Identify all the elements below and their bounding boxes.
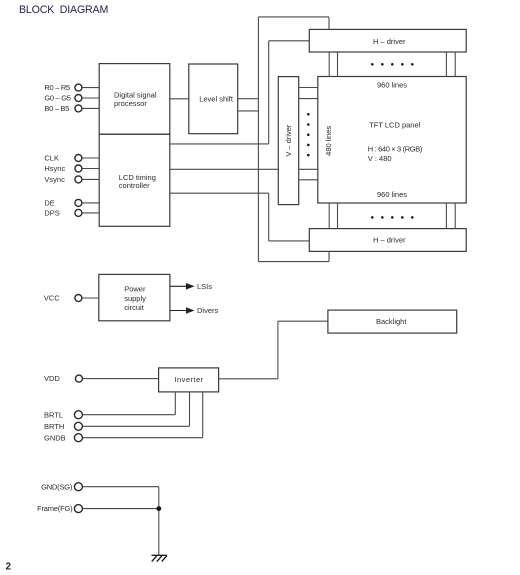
terminal Frame(FG) bbox=[74, 505, 82, 513]
svg-text:controller: controller bbox=[119, 181, 150, 190]
wire timing to bottom H-driver lower horizontal bbox=[269, 240, 310, 242]
wire into backlight bbox=[278, 320, 328, 322]
wire timing to bottom H-driver vertical bbox=[268, 193, 270, 241]
terminal BRTL bbox=[74, 411, 82, 419]
svg-text:Hsync: Hsync bbox=[44, 164, 65, 173]
svg-text:Frame(FG): Frame(FG) bbox=[37, 504, 73, 513]
terminal DE bbox=[75, 199, 82, 206]
wire R0-R5 to DSP bbox=[82, 87, 99, 89]
block U5 TFT LCD panel bbox=[318, 77, 466, 204]
svg-text:Vsync: Vsync bbox=[44, 175, 65, 184]
dots row bottom between panel and H-driver bbox=[371, 216, 414, 219]
wire DPS to timing controller bbox=[82, 212, 99, 214]
svg-text:R0 – R5: R0 – R5 bbox=[44, 83, 70, 92]
wire GND(SG) horizontal bbox=[82, 486, 159, 488]
svg-text:BLOCK DIAGRAM: BLOCK DIAGRAM bbox=[19, 4, 108, 16]
svg-text:GNDB: GNDB bbox=[44, 433, 66, 442]
svg-text:2: 2 bbox=[6, 562, 12, 573]
svg-text:supply: supply bbox=[124, 294, 146, 303]
svg-text:V – driver: V – driver bbox=[284, 124, 293, 157]
terminal DPS bbox=[75, 209, 82, 216]
wire bottom loop vertical into H-driver bottom bbox=[328, 251, 330, 261]
wire timing to top H-driver upper horizontal bbox=[269, 40, 310, 42]
svg-text:H : 640 × 3 (RGB): H : 640 × 3 (RGB) bbox=[368, 145, 423, 154]
svg-text:Power: Power bbox=[124, 284, 146, 293]
wire vertical bus left bbox=[257, 17, 259, 262]
wire DSP to Level shift bbox=[170, 98, 189, 100]
terminal GND(SG) bbox=[74, 483, 82, 491]
svg-text:VDD: VDD bbox=[44, 374, 60, 383]
svg-text:LSIs: LSIs bbox=[197, 282, 212, 291]
wire B0-B5 to DSP bbox=[82, 107, 99, 109]
svg-text:G0 – G5: G0 – G5 bbox=[44, 94, 70, 103]
wire BRTH horizontal bbox=[82, 425, 189, 427]
wire timing to top H-driver horizontal bbox=[170, 143, 269, 145]
wire inverter to backlight horizontal bbox=[219, 378, 278, 380]
wire BRTL riser bbox=[174, 392, 176, 415]
svg-text:H – driver: H – driver bbox=[373, 37, 406, 46]
wire H-driver top to panel connector left pair bbox=[328, 52, 330, 77]
svg-text:GND(SG): GND(SG) bbox=[41, 482, 73, 491]
svg-text:DE: DE bbox=[44, 199, 54, 208]
wire BRTL horizontal bbox=[82, 414, 175, 416]
svg-text:960 lines: 960 lines bbox=[377, 81, 407, 90]
wire DE to timing controller bbox=[82, 202, 99, 204]
wire VCC to power supply bbox=[82, 297, 99, 299]
svg-text:circuit: circuit bbox=[124, 303, 145, 312]
wire V-driver to panel connector bottom pair bbox=[299, 168, 318, 170]
terminal CLK bbox=[75, 155, 82, 162]
terminal VDD bbox=[75, 375, 82, 382]
junction dot node FG bbox=[156, 506, 161, 511]
wire Level shift upper stub bbox=[238, 98, 259, 100]
block U2 LCD timing controller bbox=[99, 134, 170, 226]
block U3 Level shift bbox=[189, 64, 238, 134]
block U1 Digital signal processor bbox=[99, 64, 170, 135]
svg-text:Backlight: Backlight bbox=[376, 317, 407, 326]
wire GNDB horizontal bbox=[82, 437, 202, 439]
svg-text:VCC: VCC bbox=[44, 294, 60, 303]
svg-text:processor: processor bbox=[114, 99, 147, 108]
wire top loop vertical into H-driver bbox=[328, 17, 330, 30]
wire BRTH riser bbox=[189, 392, 191, 426]
terminal BRTH bbox=[74, 422, 82, 430]
arrow Divers bbox=[170, 308, 193, 313]
svg-text:BRTL: BRTL bbox=[44, 410, 63, 419]
terminal Hsync bbox=[75, 165, 82, 172]
wire G0-G5 to DSP bbox=[82, 97, 99, 99]
wire H-driver bottom to panel connector right pair bbox=[445, 203, 447, 229]
wire Vsync to timing controller bbox=[82, 178, 99, 180]
svg-text:BRTH: BRTH bbox=[44, 422, 64, 431]
wire V-driver to panel connector top pair bbox=[299, 87, 318, 89]
svg-text:V : 480: V : 480 bbox=[368, 154, 392, 163]
wire timing to top H-driver vertical bbox=[268, 41, 270, 144]
svg-text:Divers: Divers bbox=[197, 306, 219, 315]
svg-text:960 lines: 960 lines bbox=[377, 190, 407, 199]
terminal GNDB bbox=[74, 434, 82, 442]
block U4 V-driver bbox=[278, 77, 298, 205]
wire timing to V-driver bbox=[170, 168, 278, 170]
svg-text:H – driver: H – driver bbox=[373, 236, 406, 245]
svg-text:480 lines: 480 lines bbox=[324, 126, 333, 156]
dots column between V-driver and panel bbox=[307, 113, 310, 156]
wire Level shift lower stub bbox=[238, 110, 259, 112]
wire Hsync to timing controller bbox=[82, 168, 99, 170]
block U10 Backlight bbox=[328, 310, 457, 333]
wire VDD to inverter bbox=[82, 378, 158, 380]
wire H-driver top to panel connector right pair bbox=[445, 52, 447, 77]
svg-text:DPS: DPS bbox=[44, 209, 59, 218]
block U9 Inverter bbox=[159, 368, 219, 392]
wire GND vertical to junction bbox=[158, 487, 160, 509]
block U8 Power supply circuit bbox=[99, 274, 170, 320]
terminal VCC bbox=[75, 295, 82, 302]
wire inverter to backlight vertical bbox=[277, 321, 279, 379]
svg-text:Inverter: Inverter bbox=[175, 375, 204, 384]
wire junction down to earth bbox=[158, 509, 160, 555]
wire top loop horizontal bbox=[258, 16, 329, 18]
ground earth symbol bbox=[152, 555, 167, 561]
wire H-driver bottom to panel connector left pair bbox=[328, 203, 330, 229]
wire timing to bottom H-driver horizontal bbox=[170, 192, 269, 194]
svg-text:CLK: CLK bbox=[44, 154, 59, 163]
block U6 H-driver top bbox=[309, 29, 466, 52]
terminal G0-G5 bbox=[75, 95, 82, 102]
wire Frame(FG) horizontal bbox=[82, 508, 159, 510]
terminal R0-R5 bbox=[75, 84, 82, 91]
wire GNDB riser bbox=[202, 392, 204, 438]
wire CLK to timing controller bbox=[82, 157, 99, 159]
arrow LSIs bbox=[170, 284, 193, 289]
dots row top between H-driver and panel bbox=[371, 63, 414, 66]
block U7 H-driver bottom bbox=[309, 229, 466, 252]
terminal Vsync bbox=[75, 176, 82, 183]
svg-text:TFT LCD panel: TFT LCD panel bbox=[369, 121, 420, 130]
svg-text:Level shift: Level shift bbox=[199, 95, 234, 104]
wire bottom loop horizontal bbox=[258, 261, 329, 263]
svg-text:B0 – B5: B0 – B5 bbox=[44, 104, 69, 113]
terminal B0-B5 bbox=[75, 105, 82, 112]
